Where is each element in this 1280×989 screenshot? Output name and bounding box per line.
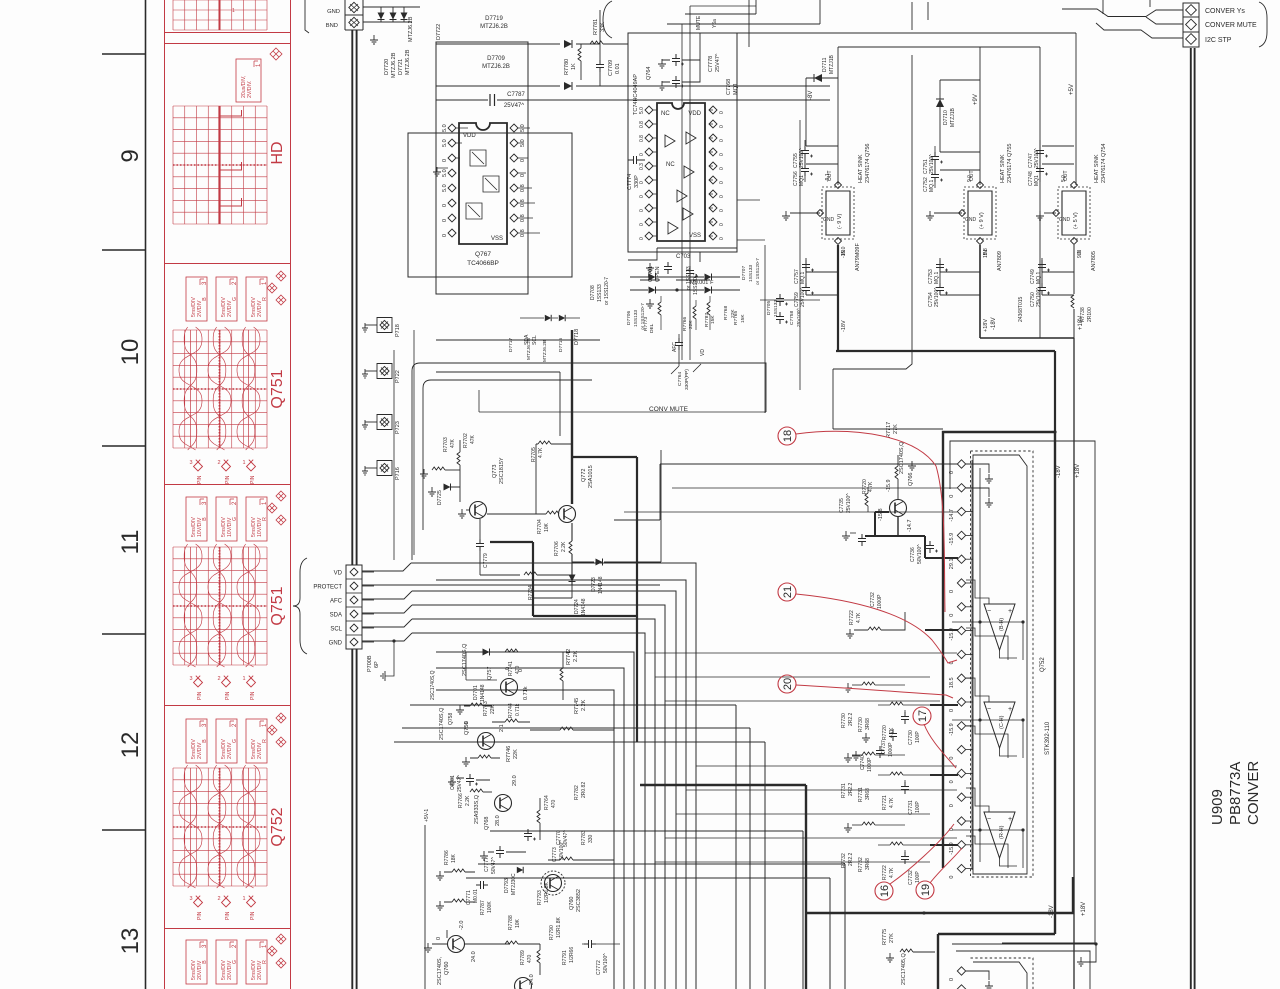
svg-text:D7711: D7711 bbox=[822, 57, 828, 72]
svg-text:P722: P722 bbox=[395, 370, 401, 383]
op-amp (C-H) bbox=[984, 702, 1015, 748]
+18V run bbox=[980, 245, 1074, 338]
wire net L4 bbox=[412, 619, 655, 989]
svg-text:50V47^: 50V47^ bbox=[491, 857, 497, 874]
capacitor C7750 bbox=[1038, 283, 1046, 295]
svg-text:D7705: D7705 bbox=[766, 301, 772, 315]
waveform scope 9 HD bbox=[236, 59, 261, 102]
svg-text:(- 9 V): (- 9 V) bbox=[837, 214, 843, 229]
diode D7724 bbox=[569, 575, 576, 582]
svg-text:24.0: 24.0 bbox=[471, 951, 477, 962]
long wires to right bbox=[436, 340, 600, 436]
svg-text:MQ1: MQ1 bbox=[733, 83, 739, 95]
svg-text:D7793: D7793 bbox=[504, 878, 510, 893]
svg-text:1N4148: 1N4148 bbox=[480, 684, 486, 702]
svg-text:0: 0 bbox=[719, 209, 725, 212]
transistor Q757 bbox=[501, 679, 518, 696]
svg-text:CONVER MUTE: CONVER MUTE bbox=[1205, 22, 1257, 29]
wire net L1 bbox=[436, 580, 686, 989]
svg-text:VSS: VSS bbox=[491, 236, 503, 242]
svg-text:0: 0 bbox=[949, 804, 955, 807]
svg-text:DEL: DEL bbox=[649, 323, 655, 333]
buffer triangle bbox=[686, 132, 696, 144]
wire net L0 bbox=[411, 563, 696, 989]
resistor R7741 470 bbox=[505, 649, 518, 652]
op-amp output wire bbox=[952, 830, 1023, 868]
connector P722 bbox=[377, 364, 392, 379]
svg-text:0: 0 bbox=[442, 219, 448, 222]
svg-text:or 1SS133: or 1SS133 bbox=[686, 266, 692, 290]
voltage regulator REG -9V bbox=[822, 187, 854, 239]
svg-text:3R68: 3R68 bbox=[865, 858, 871, 870]
svg-text:R7793: R7793 bbox=[537, 890, 543, 905]
svg-text:R7721: R7721 bbox=[882, 795, 888, 810]
svg-text:Q751: Q751 bbox=[269, 586, 286, 625]
pin diamonds Q764 row bbox=[645, 120, 653, 128]
thick bottom feed bbox=[805, 785, 807, 989]
svg-text:25V100^: 25V100^ bbox=[800, 287, 806, 307]
svg-text:11: 11 bbox=[117, 530, 144, 555]
svg-text:1SS133: 1SS133 bbox=[633, 310, 639, 327]
svg-text:R7790: R7790 bbox=[549, 925, 555, 940]
capacitor C7754 bbox=[936, 283, 944, 295]
svg-text:29.0: 29.0 bbox=[512, 775, 518, 786]
svg-text:5.0: 5.0 bbox=[442, 139, 448, 147]
svg-text:C7781: C7781 bbox=[450, 775, 456, 790]
svg-text:-15.9: -15.9 bbox=[949, 533, 955, 546]
svg-text:10K: 10K bbox=[544, 522, 550, 532]
IC Q764 TC74HC4049AP body bbox=[657, 103, 705, 241]
svg-text:24368T015: 24368T015 bbox=[1018, 296, 1024, 322]
svg-text:−: − bbox=[987, 608, 991, 615]
svg-text:3: 3 bbox=[189, 896, 192, 902]
pin GND bbox=[817, 210, 824, 217]
svg-text:HEAT SINK: HEAT SINK bbox=[1094, 154, 1100, 183]
svg-text:19: 19 bbox=[920, 884, 932, 896]
waveform column frame bbox=[165, 0, 291, 989]
sheet title text bbox=[1209, 761, 1262, 825]
svg-text:3: 3 bbox=[189, 460, 192, 466]
svg-text:2.2K: 2.2K bbox=[465, 795, 471, 806]
svg-text:18.5: 18.5 bbox=[949, 677, 955, 688]
main bus rail left bbox=[352, 30, 1194, 989]
svg-text:MQ.1: MQ.1 bbox=[1036, 272, 1042, 284]
svg-text:10: 10 bbox=[117, 339, 144, 366]
pin diamonds Q767 row bbox=[448, 199, 456, 207]
wire net L5 bbox=[412, 633, 645, 989]
waveform scope 13 (partial) bbox=[246, 940, 267, 984]
svg-text:1000P: 1000P bbox=[877, 594, 883, 609]
svg-text:PIN: PIN bbox=[225, 911, 231, 920]
svg-text:R7706: R7706 bbox=[554, 541, 560, 556]
wire bottom to ground bbox=[952, 944, 1096, 962]
svg-text:0: 0 bbox=[719, 125, 725, 128]
svg-text:M0.01: M0.01 bbox=[473, 889, 479, 903]
svg-text:D7720: D7720 bbox=[384, 59, 390, 75]
svg-text:R: R bbox=[262, 517, 268, 521]
pin diamonds Q764 row bbox=[645, 148, 653, 156]
svg-text:Q766: Q766 bbox=[908, 473, 914, 486]
svg-text:R7791: R7791 bbox=[562, 950, 568, 965]
diode D7711 bbox=[814, 74, 822, 82]
wire risers to STK top bbox=[672, 487, 957, 489]
bus to pin feeds bbox=[655, 766, 957, 862]
pin OUT bbox=[835, 182, 842, 189]
svg-text:23476174 Q756: 23476174 Q756 bbox=[865, 144, 871, 183]
capacitor C7777 50V47 bbox=[496, 846, 504, 858]
svg-text:R7764: R7764 bbox=[544, 795, 550, 810]
wire top-left connector to diodes bbox=[363, 7, 420, 22]
svg-text:0: 0 bbox=[949, 590, 955, 593]
svg-text:D7708: D7708 bbox=[590, 285, 596, 300]
svg-text:4.7K: 4.7K bbox=[538, 447, 544, 458]
AFC/VD riser bottoms bbox=[671, 364, 701, 374]
pin 10 bbox=[957, 674, 965, 682]
svg-text:0.8: 0.8 bbox=[639, 135, 645, 142]
pin 9 bbox=[957, 650, 965, 658]
svg-text:Q752: Q752 bbox=[1040, 657, 1046, 672]
op-amp input steps bbox=[966, 580, 989, 604]
svg-text:2R0.82: 2R0.82 bbox=[581, 782, 587, 798]
svg-text:24.0: 24.0 bbox=[529, 974, 535, 985]
svg-text:2: 2 bbox=[217, 676, 220, 682]
svg-text:-18V: -18V bbox=[1056, 465, 1062, 478]
red callout 18 bbox=[778, 427, 796, 445]
svg-text:9: 9 bbox=[117, 149, 144, 162]
svg-text:Y6a: Y6a bbox=[712, 19, 718, 28]
waveform scope 10 Q751 bbox=[246, 277, 267, 321]
pin 6 bbox=[957, 579, 965, 587]
svg-text:STK392-110: STK392-110 bbox=[1045, 721, 1051, 755]
resistor R7738 2R100 bbox=[1071, 295, 1074, 308]
svg-text:47K: 47K bbox=[470, 434, 476, 444]
svg-text:R: R bbox=[262, 297, 268, 301]
svg-text:MTZJ6.2B: MTZJ6.2B bbox=[480, 24, 508, 30]
transistor Q766 bbox=[890, 500, 907, 517]
svg-text:2V/DIV: 2V/DIV bbox=[257, 742, 263, 759]
pin diamonds Q764 row bbox=[645, 134, 653, 142]
svg-text:0: 0 bbox=[719, 139, 725, 142]
svg-text:MTZJ1B: MTZJ1B bbox=[829, 54, 835, 74]
svg-text:2SC1740S,Q: 2SC1740S,Q bbox=[462, 643, 468, 676]
svg-text:R7731: R7731 bbox=[841, 783, 847, 798]
capacitor C7755 bbox=[801, 146, 809, 158]
svg-text:PROTECT: PROTECT bbox=[313, 585, 342, 591]
red callout 20 bbox=[778, 675, 796, 693]
op-amp (B-H) bbox=[984, 604, 1015, 650]
svg-text:NC: NC bbox=[661, 111, 670, 117]
buffer triangle bbox=[665, 135, 675, 147]
svg-text:10K: 10K bbox=[515, 918, 521, 928]
svg-text:C7772: C7772 bbox=[596, 960, 602, 975]
pin diamonds Q767 row bbox=[448, 214, 456, 222]
switch cell bbox=[470, 150, 486, 166]
svg-text:M0.001`F: M0.001`F bbox=[690, 280, 714, 286]
svg-text:R7766: R7766 bbox=[682, 317, 688, 331]
svg-text:C7740: C7740 bbox=[860, 755, 866, 770]
capacitor C7781 25V47 bbox=[466, 774, 474, 786]
thick signal path center bbox=[572, 457, 637, 742]
pin GND bbox=[959, 210, 966, 217]
wires into connector bbox=[1062, 0, 1183, 38]
svg-text:(R-H): (R-H) bbox=[999, 825, 1005, 839]
svg-text:R7766: R7766 bbox=[458, 793, 464, 808]
svg-text:R7722: R7722 bbox=[849, 610, 855, 625]
svg-text:+: + bbox=[1008, 608, 1012, 615]
svg-text:Q760: Q760 bbox=[444, 962, 450, 975]
svg-text:B: B bbox=[202, 517, 208, 521]
connector P GND/BND top left bbox=[345, 0, 363, 30]
svg-text:CONVER Ys: CONVER Ys bbox=[1205, 8, 1245, 15]
svg-text:-15.9: -15.9 bbox=[886, 479, 892, 492]
svg-text:0.01: 0.01 bbox=[615, 63, 621, 74]
svg-text:R7702: R7702 bbox=[463, 433, 469, 448]
svg-text:0: 0 bbox=[719, 237, 725, 240]
svg-text:15K: 15K bbox=[710, 315, 716, 324]
svg-text:MQ1: MQ1 bbox=[1034, 175, 1040, 186]
pin diamonds Q764 row bbox=[645, 204, 653, 212]
svg-text:R7782: R7782 bbox=[574, 785, 580, 800]
svg-text:27K: 27K bbox=[893, 424, 899, 434]
svg-text:330P: 330P bbox=[634, 175, 640, 188]
svg-text:D7717: D7717 bbox=[508, 338, 514, 352]
svg-text:B: B bbox=[202, 739, 208, 743]
capacitor C7732 1000P bbox=[858, 534, 866, 546]
block dashed STK bbox=[971, 451, 1034, 877]
capacitor C7752 bbox=[931, 170, 939, 182]
svg-text:25V100^: 25V100^ bbox=[934, 287, 940, 307]
svg-text:PIN: PIN bbox=[225, 691, 231, 700]
svg-text:0: 0 bbox=[719, 167, 725, 170]
svg-text:470: 470 bbox=[515, 665, 521, 674]
svg-text:D7724: D7724 bbox=[574, 599, 580, 614]
svg-text:0: 0 bbox=[949, 757, 955, 760]
svg-text:17: 17 bbox=[917, 710, 929, 722]
svg-text:47K: 47K bbox=[450, 438, 456, 448]
svg-text:2SC1740S,Q: 2SC1740S,Q bbox=[430, 670, 436, 700]
capacitor C7753 bbox=[936, 260, 944, 272]
svg-text:330P(PP): 330P(PP) bbox=[684, 369, 690, 390]
svg-text:1: 1 bbox=[232, 8, 235, 14]
svg-text:-18V: -18V bbox=[841, 320, 847, 332]
svg-text:2: 2 bbox=[217, 460, 220, 466]
pin IN bbox=[977, 238, 984, 245]
svg-text:R7789: R7789 bbox=[520, 950, 526, 965]
svg-text:D7716: D7716 bbox=[558, 338, 564, 352]
ground bbox=[433, 167, 441, 176]
transistor Q760b bbox=[448, 936, 465, 953]
svg-text:1SS133: 1SS133 bbox=[773, 300, 779, 317]
svg-text:NC: NC bbox=[666, 162, 675, 168]
svg-text:-14.7: -14.7 bbox=[907, 519, 913, 532]
svg-text:Q758: Q758 bbox=[448, 713, 454, 725]
red callout 21 bbox=[778, 583, 796, 601]
svg-text:0: 0 bbox=[949, 978, 955, 981]
transistor Q773 bbox=[470, 502, 487, 519]
jog 912 to 833 bbox=[833, 55, 943, 429]
svg-text:C7709: C7709 bbox=[608, 60, 614, 76]
svg-text:0: 0 bbox=[949, 780, 955, 783]
svg-text:MTZJ6.2B: MTZJ6.2B bbox=[405, 49, 411, 75]
pin diamonds Q767 row bbox=[448, 124, 456, 132]
svg-text:D7719: D7719 bbox=[485, 16, 503, 22]
RC network ch2 bbox=[844, 823, 852, 832]
svg-text:2SC1815Y: 2SC1815Y bbox=[499, 457, 505, 484]
pin 15 bbox=[957, 793, 965, 801]
svg-text:R7722: R7722 bbox=[882, 865, 888, 880]
IC block Q764 outline bbox=[628, 33, 737, 252]
connector P700B bbox=[346, 565, 362, 649]
svg-text:1000P: 1000P bbox=[867, 757, 873, 772]
bus wider L-turns bbox=[410, 705, 736, 989]
svg-text:−: − bbox=[987, 706, 991, 713]
pin IN bbox=[1071, 238, 1078, 245]
capacitor C7759 bbox=[802, 283, 810, 295]
svg-text:-8V: -8V bbox=[808, 91, 814, 100]
svg-text:R7731: R7731 bbox=[858, 787, 864, 802]
capacitor C7749 bbox=[1038, 260, 1046, 272]
op-amp (R-H) bbox=[984, 812, 1015, 858]
diode D7710 bbox=[936, 99, 944, 107]
svg-text:100P: 100P bbox=[915, 871, 921, 883]
svg-text:-18V: -18V bbox=[991, 317, 997, 330]
pin OUT bbox=[1071, 182, 1078, 189]
svg-text:5.0: 5.0 bbox=[1061, 175, 1067, 182]
svg-text:PIN: PIN bbox=[197, 691, 203, 700]
pin diamonds Q764 row bbox=[645, 232, 653, 240]
svg-text:0: 0 bbox=[719, 153, 725, 156]
sheet border line left bbox=[102, 0, 146, 989]
svg-text:1/2R66: 1/2R66 bbox=[569, 947, 575, 963]
svg-text:1: 1 bbox=[242, 460, 245, 466]
svg-text:+5V: +5V bbox=[1069, 84, 1075, 95]
svg-text:2.2K: 2.2K bbox=[561, 541, 567, 552]
svg-text:-15.9: -15.9 bbox=[949, 723, 955, 736]
svg-text:GND: GND bbox=[965, 217, 977, 223]
pin 8 bbox=[957, 626, 965, 634]
svg-text:C7732: C7732 bbox=[908, 870, 914, 885]
bracket top mid bbox=[603, 1, 612, 38]
wire net L6 bbox=[436, 652, 634, 989]
svg-text:Q768: Q768 bbox=[484, 817, 490, 830]
pin 12 bbox=[957, 722, 965, 730]
svg-text:GND: GND bbox=[823, 217, 835, 223]
block inner chamfer STK bbox=[973, 455, 1027, 874]
svg-text:R7786: R7786 bbox=[444, 850, 450, 865]
svg-text:AFC: AFC bbox=[672, 342, 678, 352]
diode D7722 bbox=[401, 13, 408, 20]
svg-text:C7732: C7732 bbox=[870, 592, 876, 607]
svg-text:PIN: PIN bbox=[250, 475, 256, 484]
second STK block bottom bbox=[956, 951, 1090, 989]
pin 11 bbox=[957, 698, 965, 706]
transistor Q756 bbox=[478, 733, 495, 750]
svg-text:VSS: VSS bbox=[689, 233, 701, 239]
capacitor C7778 bbox=[672, 54, 680, 66]
svg-text:0.71k: 0.71k bbox=[523, 686, 529, 700]
svg-text:C7773: C7773 bbox=[552, 847, 558, 862]
svg-text:R7773: R7773 bbox=[643, 317, 649, 331]
diode bbox=[559, 315, 565, 321]
mid horizontal wires from connector bbox=[362, 563, 660, 641]
svg-text:R7745: R7745 bbox=[574, 698, 580, 714]
waveform scope 12 Q752 bbox=[246, 719, 267, 763]
svg-text:AN79M09F: AN79M09F bbox=[855, 243, 861, 271]
caps C7737/C7740 bbox=[889, 729, 897, 741]
svg-text:15K: 15K bbox=[740, 314, 746, 323]
svg-text:C7730: C7730 bbox=[908, 730, 914, 745]
svg-text:5.0: 5.0 bbox=[442, 184, 448, 192]
svg-text:MTZJ6.2B: MTZJ6.2B bbox=[391, 52, 397, 78]
switch cell bbox=[466, 203, 482, 219]
svg-text:15.8: 15.8 bbox=[983, 248, 989, 258]
RC network ch1 bbox=[844, 753, 852, 762]
pin OUT bbox=[977, 182, 984, 189]
pin diamonds Q764 row bbox=[645, 218, 653, 226]
svg-text:+: + bbox=[1008, 706, 1012, 713]
svg-text:PIN: PIN bbox=[250, 911, 256, 920]
row numbers bbox=[117, 149, 144, 954]
svg-text:-15.8: -15.8 bbox=[878, 508, 884, 521]
svg-text:C7777: C7777 bbox=[484, 857, 490, 872]
svg-text:2R2.2: 2R2.2 bbox=[848, 852, 854, 866]
pin diamonds Q767 row bbox=[448, 229, 456, 237]
svg-text:470: 470 bbox=[527, 954, 533, 963]
red callout 17 bbox=[913, 707, 931, 725]
svg-text:B: B bbox=[202, 960, 208, 964]
svg-text:0: 0 bbox=[442, 159, 448, 162]
pin 5 bbox=[957, 555, 965, 563]
capacitor C7751 bbox=[931, 152, 939, 164]
svg-text:R7775: R7775 bbox=[882, 929, 888, 945]
pin 17 bbox=[957, 841, 965, 849]
svg-text:4.7K: 4.7K bbox=[889, 867, 895, 878]
svg-text:25V100^: 25V100^ bbox=[1034, 148, 1040, 168]
svg-text:C7768: C7768 bbox=[726, 79, 732, 95]
svg-text:50V100^: 50V100^ bbox=[917, 544, 923, 564]
thick pin feeds bbox=[925, 629, 958, 631]
block outline Q767 region bbox=[436, 42, 528, 294]
transistor Q768 bbox=[495, 795, 512, 812]
IC Q767 TC4066BP bbox=[459, 123, 507, 244]
svg-text:R7787: R7787 bbox=[480, 900, 486, 915]
svg-text:PIN: PIN bbox=[250, 691, 256, 700]
svg-text:C7771: C7771 bbox=[466, 890, 472, 905]
svg-text:VD: VD bbox=[700, 349, 706, 356]
thick line D7718 bbox=[571, 330, 573, 504]
pin 18 bbox=[957, 864, 965, 872]
svg-text:100P: 100P bbox=[915, 731, 921, 743]
svg-text:D7721: D7721 bbox=[398, 59, 404, 75]
svg-text:R7788: R7788 bbox=[508, 915, 514, 930]
svg-text:PIN: PIN bbox=[197, 911, 203, 920]
svg-text:PIN: PIN bbox=[225, 475, 231, 484]
svg-text:R7746: R7746 bbox=[506, 746, 512, 762]
svg-text:22K: 22K bbox=[688, 320, 694, 329]
diode D7701 bbox=[483, 649, 490, 656]
capacitor C7748 bbox=[1036, 164, 1044, 176]
svg-text:2.2K: 2.2K bbox=[581, 699, 587, 711]
svg-text:D7706: D7706 bbox=[626, 311, 632, 325]
svg-text:SCL: SCL bbox=[330, 627, 342, 633]
waveform scope 11 Q751 bbox=[246, 497, 267, 541]
svg-text:-18V: -18V bbox=[1049, 905, 1055, 918]
svg-text:2SA1015: 2SA1015 bbox=[588, 465, 594, 488]
thick corner feeds bottom right bbox=[806, 877, 1073, 913]
svg-text:3R68: 3R68 bbox=[865, 718, 871, 730]
capacitor C7768 bbox=[672, 76, 680, 88]
pin diamonds Q764 row bbox=[645, 106, 653, 114]
